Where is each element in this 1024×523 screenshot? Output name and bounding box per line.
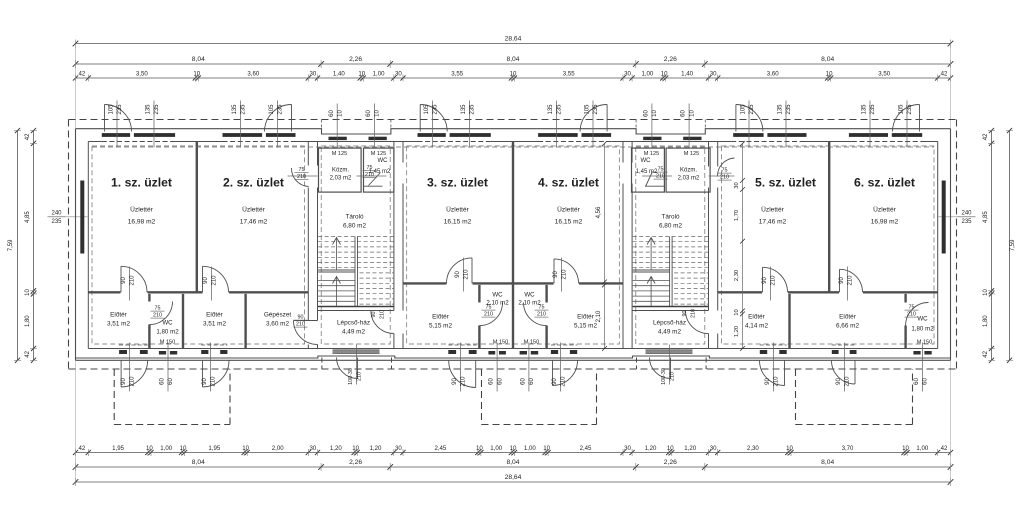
svg-text:60: 60 (366, 110, 372, 117)
stairwell2 window 60/10 right (683, 137, 701, 140)
svg-text:235: 235 (117, 104, 123, 115)
anteroom1 exterior door threshold (119, 345, 148, 355)
shop1 entrance door swing (105, 105, 132, 132)
svg-text:135: 135 (461, 104, 467, 115)
stairwell1 WC door size label (363, 165, 377, 178)
svg-text:10: 10 (375, 110, 381, 117)
svg-text:8,04: 8,04 (192, 459, 205, 466)
svg-text:3,60 m2: 3,60 m2 (266, 321, 290, 328)
stairwell2 window 60/10 left (643, 137, 661, 140)
svg-text:10: 10 (352, 445, 359, 452)
anteroom3 exterior door swing 90/210 (449, 361, 476, 388)
svg-text:1,80 m2: 1,80 m2 (911, 326, 934, 333)
svg-text:10: 10 (510, 445, 517, 452)
utility room door into shop2 (288, 168, 318, 187)
svg-text:210: 210 (461, 376, 467, 387)
west facade window 240/235 (80, 181, 84, 254)
shop 3 title (427, 176, 488, 190)
svg-text:210: 210 (562, 269, 568, 280)
stairwell2 entrance glazing 100-30/210 (646, 350, 693, 354)
svg-text:42: 42 (79, 70, 86, 77)
svg-text:10: 10 (337, 110, 343, 117)
inner wall south face (88, 348, 937, 350)
svg-text:210: 210 (380, 310, 386, 319)
stairwell2 stair flights (633, 237, 709, 307)
svg-text:210: 210 (771, 275, 777, 286)
mechanical room door swing (294, 321, 318, 345)
shop3 entrance door swing (420, 105, 447, 132)
svg-text:90: 90 (552, 378, 558, 385)
utility room 2 label (678, 168, 700, 182)
shop3 storefront glazing 105+135/235 (418, 133, 491, 138)
porch canopy middle dashed (482, 369, 597, 425)
svg-text:4,85: 4,85 (25, 211, 31, 223)
svg-text:210: 210 (297, 174, 306, 180)
stairwell2 entrance door swing 100-30/210 (650, 358, 671, 379)
svg-text:2,26: 2,26 (664, 459, 677, 466)
svg-text:28,64: 28,64 (505, 36, 522, 43)
svg-text:90: 90 (455, 271, 461, 278)
svg-text:42: 42 (983, 350, 989, 357)
svg-text:30: 30 (395, 70, 402, 77)
svg-text:10: 10 (543, 445, 550, 452)
svg-text:30: 30 (310, 70, 317, 77)
partition anteroom2/mechanical room (244, 294, 246, 349)
anteroom 1 label (107, 312, 131, 328)
WC4 door swing (524, 303, 547, 326)
top dimension row total 28,64 (73, 36, 954, 48)
svg-text:17,46 m2: 17,46 m2 (240, 219, 268, 226)
partition WC4/anteroom4 (545, 285, 547, 349)
svg-text:1,95: 1,95 (208, 445, 220, 452)
svg-text:135: 135 (862, 104, 868, 115)
partition anteroom6/WC6 (904, 294, 906, 349)
svg-text:210: 210 (691, 309, 697, 318)
svg-text:10: 10 (983, 289, 989, 296)
svg-text:210: 210 (365, 172, 374, 178)
svg-text:1,20: 1,20 (684, 445, 696, 452)
shop 5 area label (759, 206, 787, 226)
east facade window 240/235 (942, 181, 946, 254)
svg-text:16,98 m2: 16,98 m2 (128, 219, 156, 226)
svg-text:100-30: 100-30 (661, 368, 667, 385)
svg-text:235: 235 (241, 104, 247, 115)
svg-text:1,70: 1,70 (734, 210, 740, 221)
stairwell1 entrance door swing 100-30/210 (337, 358, 358, 379)
svg-text:16,15 m2: 16,15 m2 (444, 219, 472, 226)
svg-text:1,00: 1,00 (160, 445, 172, 452)
staircase hall 1 label (337, 320, 370, 336)
svg-text:10: 10 (193, 70, 200, 77)
dashed inner face across storefront openings (102, 140, 925, 143)
svg-text:2,03 m2: 2,03 m2 (330, 176, 352, 182)
svg-text:2. sz. üzlet: 2. sz. üzlet (223, 176, 284, 190)
stairwell2 WC door size label (654, 167, 668, 180)
svg-text:1,20: 1,20 (370, 445, 382, 452)
svg-text:235: 235 (154, 104, 160, 115)
svg-text:1,20: 1,20 (645, 445, 657, 452)
svg-text:7,59: 7,59 (1010, 239, 1016, 251)
svg-text:105: 105 (585, 104, 591, 115)
utility room1 door size label (295, 167, 309, 180)
shop2 storefront glazing 135+105/235 (223, 133, 296, 138)
WC4 sill label (524, 340, 540, 346)
mechanical room door size label (294, 315, 308, 328)
svg-text:3,55: 3,55 (451, 70, 463, 77)
anteroom2 exterior door threshold (201, 345, 227, 355)
svg-text:3,60: 3,60 (247, 70, 259, 77)
stair window size labels (329, 110, 696, 117)
svg-text:WC: WC (162, 320, 173, 327)
stairwell2 meter labels (644, 151, 700, 157)
svg-text:Üzlettér: Üzlettér (242, 206, 266, 214)
svg-text:30: 30 (624, 70, 631, 77)
svg-text:210: 210 (845, 376, 851, 387)
svg-text:235: 235 (557, 104, 563, 115)
svg-text:M 125: M 125 (371, 151, 387, 157)
shop2 entrance door swing (265, 105, 292, 132)
svg-text:1,80: 1,80 (983, 315, 989, 327)
svg-text:60: 60 (497, 378, 503, 385)
svg-text:210: 210 (537, 312, 546, 318)
svg-text:M 125: M 125 (332, 151, 348, 157)
svg-text:2,26: 2,26 (349, 56, 362, 63)
stairwell1 utility room WC box (364, 148, 394, 192)
svg-text:42: 42 (941, 445, 948, 452)
svg-text:60: 60 (168, 378, 174, 385)
svg-text:75: 75 (486, 305, 492, 311)
section wall between stairwell2 and shop5 (709, 142, 718, 349)
svg-text:2,45: 2,45 (434, 445, 446, 452)
svg-text:210: 210 (464, 269, 470, 280)
svg-text:10: 10 (661, 70, 668, 77)
svg-text:8,04: 8,04 (821, 56, 834, 63)
interior lintel dashed rectangle block 2 (407, 146, 620, 344)
svg-text:210: 210 (212, 275, 218, 286)
utility room 1 label (330, 168, 352, 182)
svg-text:30: 30 (395, 445, 402, 452)
bottom dimension row total 28,64 (73, 474, 954, 486)
WC6 door swing (906, 303, 929, 326)
svg-text:Közm.: Közm. (332, 168, 349, 174)
outer wall west face (75, 129, 77, 361)
shop6 to anteroom6 door swing (840, 269, 863, 292)
svg-text:Tároló: Tároló (661, 214, 680, 221)
canopy recess corner ticks (322, 120, 706, 129)
svg-text:1,20: 1,20 (734, 326, 740, 337)
continuous lintel dashed line below north wall (92, 146, 934, 148)
left vertical dimension chain 42/4,85/10/1,80/42 (25, 128, 37, 363)
shop 4 area label (555, 206, 583, 226)
WC6 label (911, 316, 934, 346)
svg-text:235: 235 (870, 104, 876, 115)
svg-text:Üzlettér: Üzlettér (446, 206, 470, 214)
svg-text:210: 210 (296, 322, 305, 328)
svg-text:235: 235 (51, 219, 62, 225)
stairwell1 utility room Kozm box (319, 148, 362, 192)
svg-text:90: 90 (452, 378, 458, 385)
interior lintel dashed rectangle stair section 1 (321, 146, 390, 344)
svg-text:1,40: 1,40 (333, 70, 345, 77)
svg-text:Üzlettér: Üzlettér (557, 206, 581, 214)
svg-text:135: 135 (146, 104, 152, 115)
svg-text:235: 235 (786, 104, 792, 115)
svg-text:16,98 m2: 16,98 m2 (871, 219, 899, 226)
svg-text:3,50: 3,50 (878, 70, 890, 77)
WC4 label (518, 292, 541, 307)
svg-text:60: 60 (329, 110, 335, 117)
svg-text:30: 30 (710, 70, 717, 77)
shop4 entrance door swing (580, 105, 607, 132)
right vertical dimension total 7,59 (1006, 128, 1016, 363)
svg-text:Üzlettér: Üzlettér (873, 206, 897, 214)
partition anteroom5/anteroom6 (788, 294, 790, 349)
storage room 2 label (659, 214, 683, 230)
WC1 door swing (149, 302, 172, 325)
WC4 door size label (535, 305, 549, 318)
svg-text:17,46 m2: 17,46 m2 (759, 219, 787, 226)
shop 6 area label (871, 206, 899, 226)
partition wall shops/anterooms right block (718, 291, 938, 293)
partition WC1/anteroom2 (182, 294, 184, 349)
utility room door into shop5 (709, 158, 735, 177)
section wall between shop2 and stairwell1 (308, 142, 317, 349)
svg-text:2,30: 2,30 (734, 270, 740, 281)
stairwell1 hall north boundary (318, 310, 394, 312)
svg-text:210: 210 (211, 376, 217, 387)
svg-text:90: 90 (765, 378, 771, 385)
WC1 label (156, 320, 179, 346)
svg-text:210: 210 (774, 376, 780, 387)
svg-text:30: 30 (310, 445, 317, 452)
svg-text:10: 10 (476, 445, 483, 452)
partition wall shops/anterooms centre block (403, 282, 623, 284)
svg-text:1,00: 1,00 (641, 70, 653, 77)
svg-text:30: 30 (710, 445, 717, 452)
svg-text:105: 105 (424, 104, 430, 115)
WC6 window 60/60 (913, 351, 931, 355)
interior dimension chain 4,56 / 2,10 in shop4 (596, 141, 607, 351)
svg-text:235: 235 (749, 104, 755, 115)
inner wall north face (88, 141, 937, 143)
svg-text:Üzlettér: Üzlettér (761, 206, 785, 214)
svg-text:90: 90 (371, 312, 377, 318)
left window label 240/235 (48, 211, 88, 226)
svg-text:M 150: M 150 (160, 340, 176, 346)
svg-text:Gépészet: Gépészet (264, 312, 292, 319)
stairwell1 to shop3 anteroom door swing (371, 311, 394, 334)
svg-text:75: 75 (155, 306, 161, 312)
svg-text:16,15 m2: 16,15 m2 (555, 219, 583, 226)
svg-text:2,03 m2: 2,03 m2 (678, 176, 700, 182)
svg-text:210: 210 (720, 175, 729, 181)
inner wall east face (937, 142, 939, 349)
south opening leader lines (130, 343, 923, 392)
shop6 storefront glazing 135+105/235 (849, 133, 922, 138)
svg-text:4,14 m2: 4,14 m2 (745, 323, 769, 330)
interior dimension chain in shop5 (734, 141, 745, 351)
stairwell2 WC label (636, 158, 658, 175)
south opening size labels (121, 376, 929, 387)
stairwell2 to shop5 anteroom door swing (686, 311, 709, 334)
svg-text:10: 10 (25, 289, 31, 296)
svg-text:42: 42 (25, 350, 31, 357)
section wall between shop4 and stairwell2 (623, 142, 632, 349)
svg-text:4,49 m2: 4,49 m2 (658, 329, 682, 336)
mechanical room label (264, 312, 292, 328)
anteroom4 exterior door swing 90/210 (553, 361, 578, 386)
svg-text:90: 90 (553, 271, 559, 278)
svg-text:8,04: 8,04 (821, 459, 834, 466)
storage room 1 label (343, 214, 367, 230)
svg-text:6,80 m2: 6,80 m2 (659, 223, 683, 230)
svg-text:235: 235 (593, 104, 599, 115)
interior lintel dashed rectangle block 3 (721, 146, 934, 344)
svg-text:60: 60 (160, 378, 166, 385)
svg-text:90: 90 (298, 315, 304, 321)
storefront opening size labels (109, 104, 914, 115)
anteroom 5 label (745, 314, 769, 330)
svg-text:42: 42 (79, 445, 86, 452)
svg-text:M 150: M 150 (524, 340, 540, 346)
svg-text:2,30: 2,30 (747, 445, 759, 452)
porch canopy left dashed (114, 369, 230, 425)
svg-text:10: 10 (180, 445, 187, 452)
svg-text:3,51 m2: 3,51 m2 (203, 321, 227, 328)
svg-text:Előtér: Előtér (839, 314, 857, 321)
svg-text:Előtér: Előtér (577, 314, 595, 321)
top dimension row 8,04 / 2,26 / 8,04 / 2,26 / 8,04 (73, 56, 954, 68)
outer wall south face (with stair insets) (76, 356, 951, 358)
svg-text:Lépcső-ház: Lépcső-ház (337, 320, 370, 327)
svg-text:210: 210 (153, 313, 162, 319)
svg-text:2,10: 2,10 (596, 310, 602, 322)
svg-text:90: 90 (202, 378, 208, 385)
svg-text:4,49 m2: 4,49 m2 (342, 329, 366, 336)
svg-text:7,59: 7,59 (8, 239, 14, 251)
roof overhang dashed outline (69, 120, 957, 370)
svg-text:60: 60 (521, 378, 527, 385)
svg-text:90: 90 (836, 378, 842, 385)
svg-text:Lépcső-ház: Lépcső-ház (653, 320, 686, 327)
shop 4 title (538, 176, 599, 190)
svg-text:1. sz. üzlet: 1. sz. üzlet (111, 176, 172, 190)
stair entrance leader lines (357, 345, 670, 385)
interior shop door size labels (121, 269, 854, 286)
svg-text:8,04: 8,04 (192, 56, 205, 63)
svg-text:3,60: 3,60 (767, 70, 779, 77)
svg-text:Előtér: Előtér (110, 312, 128, 319)
svg-text:3,55: 3,55 (563, 70, 575, 77)
inner wall west face (87, 142, 89, 349)
svg-text:210: 210 (561, 376, 567, 387)
svg-text:60: 60 (923, 378, 929, 385)
WC3 door swing (479, 303, 502, 326)
stairwell2 utility room WC box (632, 148, 665, 192)
svg-text:M 125: M 125 (684, 151, 700, 157)
stairwell 2 entrance canopy dashed (637, 358, 707, 370)
anteroom 6 label (836, 314, 860, 330)
svg-text:3,50: 3,50 (136, 70, 148, 77)
svg-text:235: 235 (433, 104, 439, 115)
anteroom 4 label (574, 314, 598, 330)
stairwell1 stair flights (318, 237, 394, 307)
bottom dimension detail chain (73, 445, 953, 456)
svg-text:4,85: 4,85 (983, 211, 989, 223)
svg-text:210: 210 (848, 275, 854, 286)
svg-text:90: 90 (203, 277, 209, 284)
WC3 window 60/60 (488, 351, 506, 355)
svg-text:90: 90 (762, 277, 768, 284)
svg-text:135: 135 (232, 104, 238, 115)
svg-text:Előtér: Előtér (206, 312, 224, 319)
svg-text:1,95: 1,95 (112, 445, 124, 452)
shop 6 title (854, 176, 915, 190)
svg-text:10: 10 (510, 70, 517, 77)
svg-text:210: 210 (357, 372, 363, 381)
svg-text:135: 135 (778, 104, 784, 115)
shop5 to anteroom5 door swing (763, 267, 788, 292)
shop1 to anteroom1 door swing (121, 266, 147, 292)
svg-text:60: 60 (681, 110, 687, 117)
svg-text:1,80 m2: 1,80 m2 (156, 329, 179, 336)
svg-text:5,15 m2: 5,15 m2 (429, 323, 453, 330)
interior door leader lines (130, 258, 848, 301)
section wall between stairwell1 and shop3 (394, 142, 403, 349)
storefront opening leader lines (117, 101, 907, 148)
WC3 door size label (482, 305, 496, 318)
svg-text:105: 105 (899, 104, 905, 115)
svg-text:42: 42 (941, 70, 948, 77)
stairwell1 WC door leaf (357, 173, 387, 187)
anteroom4 exterior door threshold (551, 345, 577, 355)
WC1 window 60/60 (159, 351, 177, 355)
svg-text:10: 10 (358, 70, 365, 77)
svg-text:235: 235 (470, 104, 476, 115)
WC6 door size label (905, 305, 919, 318)
svg-text:8,04: 8,04 (506, 459, 519, 466)
shop 5 title (755, 176, 816, 190)
stairwell1 window 60/10 right (369, 137, 387, 140)
shop5 entrance door swing (736, 105, 763, 132)
anteroom3 exterior door threshold (448, 345, 476, 355)
svg-text:210: 210 (130, 275, 136, 286)
svg-text:90: 90 (121, 378, 127, 385)
svg-text:WC: WC (641, 158, 652, 164)
left vertical dimension total 7,59 (8, 128, 21, 363)
anteroom5 exterior door swing 90/210 (760, 361, 785, 386)
partition anteroom3/WC3 (478, 285, 480, 349)
svg-text:100-30: 100-30 (348, 368, 354, 385)
staircase hall 2 label (653, 320, 686, 336)
shop5 storefront glazing 105+135/235 (733, 133, 806, 138)
partition anteroom1/WC1 (148, 294, 150, 349)
svg-text:4. sz. üzlet: 4. sz. üzlet (538, 176, 599, 190)
svg-text:1,00: 1,00 (524, 445, 536, 452)
WC3 label (486, 292, 509, 307)
svg-text:1,40: 1,40 (681, 70, 693, 77)
svg-text:90: 90 (839, 277, 845, 284)
svg-text:WC: WC (492, 292, 503, 299)
svg-text:75: 75 (539, 305, 545, 311)
anteroom6 exterior door threshold (832, 345, 857, 355)
svg-text:60: 60 (644, 110, 650, 117)
stairwell1 WC label (369, 158, 391, 175)
svg-text:WC: WC (378, 158, 389, 164)
svg-text:10: 10 (902, 445, 909, 452)
svg-text:42: 42 (25, 133, 31, 140)
WC3 sill label (493, 340, 509, 346)
